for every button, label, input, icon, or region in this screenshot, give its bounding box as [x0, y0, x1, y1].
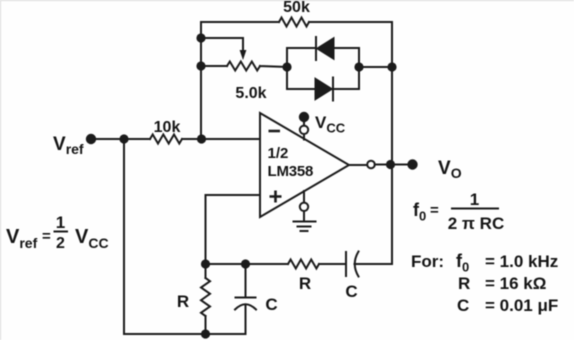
wire series C to right bus [355, 263, 393, 265]
svg-text:1: 1 [470, 190, 479, 209]
capacitor C (series) flat plate [345, 252, 347, 276]
svg-text:C: C [345, 282, 357, 301]
node dot: left vertical meets 10k wire [197, 134, 206, 143]
svg-text:VCC: VCC [75, 226, 109, 251]
svg-text:Vref: Vref [6, 226, 38, 251]
formula Vref = 1/2 Vcc [6, 213, 109, 252]
wire Vref terminal to junction [91, 138, 124, 140]
svg-text:2: 2 [56, 235, 65, 252]
svg-text:=: = [430, 202, 439, 219]
wire RC junction rail [206, 263, 289, 265]
op-amp V+ pin open circle [300, 126, 308, 134]
node dot: Vref junction [119, 134, 128, 143]
svg-text:10k: 10k [154, 119, 181, 136]
diode D1 (top, cathode left) [316, 37, 334, 60]
node dot: output on right bus [386, 160, 395, 169]
wire Vcc dot stem [303, 122, 305, 126]
op-amp minus sign [269, 130, 281, 133]
capacitor C (parallel) top lead and flat plate [236, 264, 256, 298]
capacitor C (series) curved plate [355, 252, 359, 277]
diode network box left edge [286, 48, 288, 89]
wire diode box bottom edge [287, 88, 359, 90]
op-amp output lead [349, 164, 367, 166]
node dot: R bottom on rail [201, 329, 210, 338]
potentiometer 5.0k wiper arrowhead [240, 50, 247, 60]
op-amp V- pin open circle [300, 203, 308, 211]
wire series R to series C [319, 263, 346, 265]
wire 10k to inverting input [182, 138, 260, 140]
svg-text:LM358: LM358 [268, 163, 314, 180]
node dot: pot end on left vertical [196, 61, 205, 70]
svg-text:f0: f0 [456, 251, 469, 275]
node dot: R top junction [201, 259, 210, 268]
svg-text:1: 1 [56, 213, 65, 232]
svg-text:R: R [458, 274, 470, 293]
op-amp output open circle pin [367, 161, 375, 169]
resistor R (parallel, vertical) [201, 264, 210, 334]
formula f0 = 1/(2 pi RC) [413, 190, 504, 233]
svg-text:For:: For: [411, 252, 444, 271]
supply dot Vcc [299, 112, 309, 122]
wire right vertical (output feedback bus) [391, 22, 393, 264]
diode D2 (bottom, cathode right) [315, 78, 333, 101]
svg-text:R: R [177, 292, 189, 311]
svg-text:50k: 50k [283, 0, 310, 16]
resistor 10k [124, 135, 182, 144]
svg-text:= 0.01 μF: = 0.01 μF [485, 296, 558, 315]
op-amp U1 1/2 LM358 triangle [260, 113, 349, 217]
wire diode box output to right bus [359, 66, 392, 68]
svg-text:5.0k: 5.0k [235, 85, 266, 102]
terminal dot Vref [86, 134, 96, 144]
terminal dot Vo [407, 159, 417, 169]
svg-text:Vref: Vref [53, 134, 84, 157]
op-amp V+ pin stem [303, 134, 305, 140]
diode network box right edge [358, 48, 360, 89]
svg-text:C: C [457, 296, 469, 315]
node dot: C top junction [241, 259, 250, 268]
node dot: diode box left node [282, 62, 291, 71]
node dot: diode box right node [354, 62, 363, 71]
wire diode box top edge [287, 47, 359, 49]
svg-text:VCC: VCC [315, 113, 346, 136]
svg-text:C: C [265, 295, 277, 314]
svg-text:f0: f0 [413, 200, 426, 224]
wire top rail left segment [201, 21, 279, 23]
svg-text:= 1.0 kHz: = 1.0 kHz [485, 252, 558, 271]
svg-text:=: = [42, 228, 51, 245]
svg-text:= 16 kΩ: = 16 kΩ [485, 274, 546, 293]
node dot: diode wire on right bus [387, 62, 396, 71]
wire left upper vertical [200, 22, 202, 139]
wire bottom rail [124, 333, 246, 335]
op-amp V- pin stem [303, 191, 305, 203]
wire left lower vertical (Vref down) [123, 139, 125, 334]
wire output to Vo terminal [375, 164, 407, 166]
op-amp plus sign [270, 191, 282, 203]
resistor R (series) [288, 260, 319, 269]
svg-text:1/2: 1/2 [268, 145, 289, 162]
svg-text:2 π RC: 2 π RC [448, 214, 504, 233]
potentiometer 5.0k body [201, 62, 287, 71]
capacitor C (parallel) curved plate and bottom lead [235, 304, 256, 334]
svg-text:R: R [299, 274, 311, 293]
potentiometer 5.0k wiper arm wire [201, 38, 243, 51]
wire non-inverting input [206, 195, 261, 264]
svg-text:VO: VO [438, 158, 462, 181]
resistor 50k [279, 18, 309, 27]
wire top rail right segment [309, 21, 392, 23]
table For: f0 = 1.0 kHz, R = 16 kOhm, C = 0.01 uF [411, 251, 558, 315]
ground [294, 211, 316, 231]
node dot: wiper branch on left vertical [196, 33, 205, 42]
